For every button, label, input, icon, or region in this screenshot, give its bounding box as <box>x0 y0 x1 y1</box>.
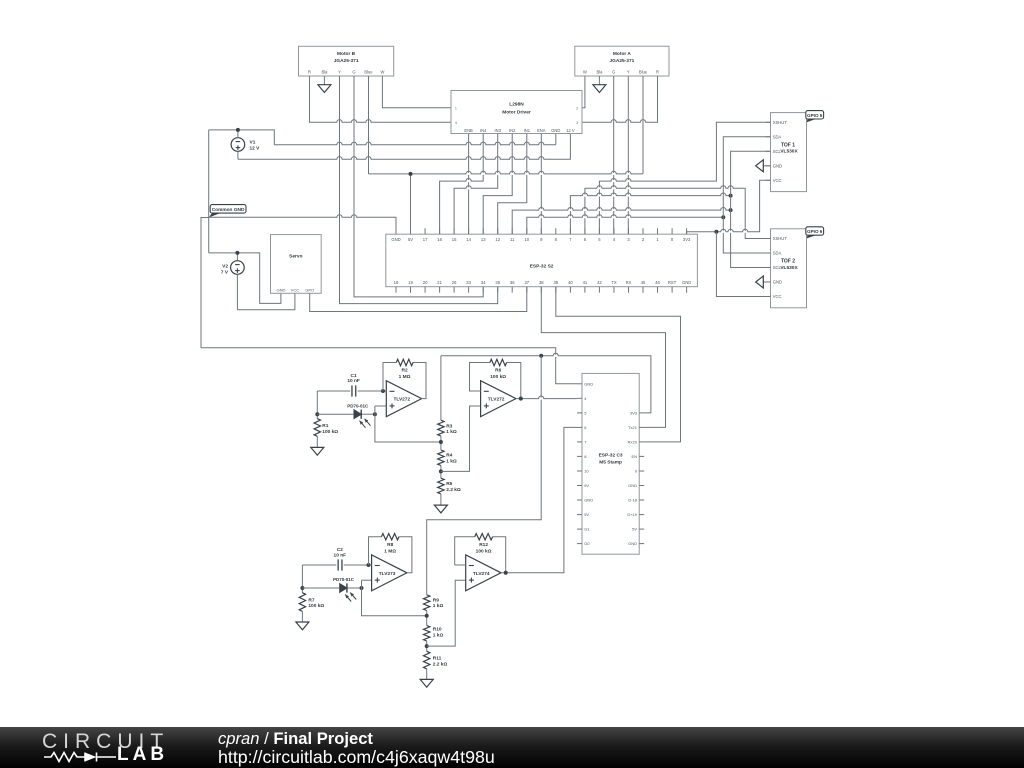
wire R3-R4 <box>440 436 442 450</box>
svg-text:V1: V1 <box>250 140 256 146</box>
label Motor A <box>609 51 634 64</box>
svg-text:Tx21: Tx21 <box>628 425 638 430</box>
svg-text:1 kΩ: 1 kΩ <box>446 458 457 464</box>
net flag GPIO 6 <box>806 227 824 239</box>
svg-text:15: 15 <box>452 237 457 242</box>
svg-text:EN: EN <box>631 454 637 459</box>
svg-text:ENB: ENB <box>464 128 473 133</box>
footer text <box>218 730 495 767</box>
wire R4-R5 <box>440 466 442 479</box>
wire ESP pin11 SDA rail <box>512 208 730 235</box>
svg-text:JGA25-371: JGA25-371 <box>609 58 634 64</box>
svg-text:SCL: SCL <box>773 265 782 270</box>
ground TOF 1 GND <box>756 160 771 172</box>
wire Motor A G to ESP pin4 <box>613 76 615 234</box>
wire C2 input line <box>302 564 368 566</box>
svg-text:TLV272: TLV272 <box>393 397 410 403</box>
svg-text:Blue: Blue <box>364 69 373 74</box>
label Servo <box>289 254 302 260</box>
svg-text:TOF 1: TOF 1 <box>781 142 795 148</box>
svg-text:R1: R1 <box>322 423 328 429</box>
pin stubs ESP-32 S2 top <box>396 228 687 234</box>
label V2 7V <box>221 263 229 275</box>
svg-text:100 kΩ: 100 kΩ <box>308 603 324 609</box>
svg-text:37: 37 <box>524 280 529 285</box>
photodiode PD70-01C #1 <box>354 410 371 428</box>
resistor R7 100k <box>299 593 305 612</box>
label R10 <box>433 627 444 639</box>
svg-text:10 nF: 10 nF <box>347 378 360 384</box>
wire ENB to ESP pin14 <box>468 134 470 235</box>
svg-text:10: 10 <box>524 237 529 242</box>
pin stubs C3 left <box>577 384 582 544</box>
svg-text:5V: 5V <box>584 483 589 488</box>
svg-text:33: 33 <box>466 280 471 285</box>
svg-text:VCC: VCC <box>291 287 300 292</box>
svg-text:G: G <box>612 69 615 74</box>
svg-text:PD70-01C: PD70-01C <box>333 577 355 582</box>
svg-text:100 kΩ: 100 kΩ <box>322 429 338 435</box>
junction sensor1 node <box>315 412 319 416</box>
pin stubs ESP-32 S2 bottom <box>396 287 687 293</box>
wire 12V rail V1+ to L298N 12V pin <box>238 134 571 161</box>
svg-text:GND: GND <box>628 483 637 488</box>
label ESP-32 C3 M5 Stamp <box>599 453 623 466</box>
pin numbers L298N sides <box>455 107 578 126</box>
box ESP-32 S2 <box>386 234 698 287</box>
junction pin7 rail / SCL vertical <box>729 194 733 198</box>
wire V2 top rail <box>209 253 281 304</box>
wire GND rail to L298N GND pin <box>274 134 556 146</box>
svg-text:18: 18 <box>394 280 399 285</box>
label V1 12V <box>250 140 261 152</box>
capacitor C1 10nF <box>352 385 356 396</box>
svg-text:16: 16 <box>437 237 442 242</box>
pin stubs TOF 2 <box>766 239 771 297</box>
svg-text:R11: R11 <box>433 655 442 661</box>
op-amp U3 TLV273 <box>372 555 407 591</box>
label Motor B <box>334 51 359 64</box>
svg-text:TLV274: TLV274 <box>473 571 490 577</box>
svg-text:IN1: IN1 <box>524 128 531 133</box>
box ESP-32 C3 M5 Stamp <box>582 373 639 554</box>
wire ESP pin39 to C3 Rx20 <box>556 287 681 442</box>
svg-text:ESP-32 C3: ESP-32 C3 <box>599 453 623 459</box>
svg-text:34: 34 <box>481 280 486 285</box>
wire ENA to ESP pin9 <box>540 134 542 235</box>
wire Motor A Y to ESP pin3 <box>627 76 629 234</box>
svg-text:R5: R5 <box>446 481 452 487</box>
wire ESP 5V pin to rail <box>410 174 412 234</box>
wire Motor A W to driver <box>582 76 585 108</box>
junction photodiode to plus input <box>373 412 377 416</box>
wire feedback op1 <box>383 363 426 399</box>
svg-text:GND: GND <box>682 280 691 285</box>
wire long common gnd line <box>201 348 577 384</box>
svg-text:45: 45 <box>641 280 646 285</box>
label R12 <box>476 542 492 554</box>
svg-text:R3: R3 <box>446 423 452 429</box>
svg-text:R10: R10 <box>433 627 442 633</box>
svg-text:RST: RST <box>668 280 677 285</box>
wire Motor B G to ESP pin34 <box>354 76 483 297</box>
pin labels Motor B <box>308 69 384 74</box>
op-amp U4 TLV274 <box>466 555 501 591</box>
pin labels ESP-32 S2 top <box>391 237 691 242</box>
svg-text:GPIO 6: GPIO 6 <box>807 229 823 234</box>
svg-text:38: 38 <box>539 280 544 285</box>
svg-text:GND: GND <box>628 541 637 546</box>
svg-text:2.2 kΩ: 2.2 kΩ <box>446 487 461 493</box>
svg-text:GND: GND <box>551 128 560 133</box>
wire sensor2 node <box>301 565 303 593</box>
label R11 <box>433 655 448 667</box>
wire minus input op1 <box>383 390 386 392</box>
svg-text:35: 35 <box>495 280 500 285</box>
wire V1 top to Common GND rail <box>209 130 275 145</box>
wire photodiode line 2 <box>302 587 361 589</box>
svg-text:100 kΩ: 100 kΩ <box>490 374 506 380</box>
svg-text:R6: R6 <box>495 368 501 374</box>
wire TOF SDA bus <box>723 137 770 253</box>
svg-text:IN2: IN2 <box>509 128 516 133</box>
resistor R2 1M <box>396 359 413 365</box>
svg-text:VL530X: VL530X <box>780 149 798 155</box>
svg-text:TOF 2: TOF 2 <box>781 259 795 265</box>
svg-text:C1: C1 <box>351 373 357 379</box>
svg-text:12 V: 12 V <box>250 145 261 151</box>
wire ESP pin7 rail <box>570 193 730 234</box>
svg-text:Motor A: Motor A <box>613 51 631 57</box>
svg-text:GND: GND <box>773 163 782 168</box>
box Motor A JGA25-371 <box>575 46 669 76</box>
junction V2 top <box>235 251 239 255</box>
net flag GPIO 5 <box>806 111 824 123</box>
junction sensor2 node <box>300 586 304 590</box>
resistor R9 1k <box>424 595 430 611</box>
op-amp U1 TLV272 <box>386 381 421 417</box>
svg-text:41: 41 <box>583 280 588 285</box>
svg-text:R: R <box>308 69 311 74</box>
resistor R10 1k <box>424 626 430 642</box>
svg-text:GND: GND <box>584 498 593 503</box>
ground R5 <box>434 494 447 513</box>
svg-text:12: 12 <box>495 237 500 242</box>
junction minus op1 <box>381 389 385 393</box>
svg-text:IN3: IN3 <box>495 128 502 133</box>
label L298N Motor Driver <box>502 102 531 116</box>
pin labels TOF 2 <box>773 236 788 299</box>
wire 3V3 to TOF2 VCC <box>716 232 770 297</box>
svg-text:ESP-32 S2: ESP-32 S2 <box>530 263 554 269</box>
CircuitLab logo <box>0 726 1024 728</box>
pin labels C3 right <box>627 411 637 547</box>
svg-text:12 V: 12 V <box>566 128 575 133</box>
svg-text:40: 40 <box>568 280 573 285</box>
svg-text:2: 2 <box>576 107 578 111</box>
svg-text:SDA: SDA <box>773 134 782 139</box>
wire common gnd vertical <box>208 130 210 253</box>
svg-text:4: 4 <box>455 121 457 125</box>
wire R9-R10 <box>426 611 428 626</box>
svg-text:GND: GND <box>773 280 782 285</box>
wire photodiode line 1 <box>317 413 375 415</box>
resistor R4 1k <box>438 450 444 466</box>
wire feedback op2 <box>470 363 521 399</box>
svg-text:GND: GND <box>391 237 400 242</box>
svg-text:26: 26 <box>452 280 457 285</box>
svg-text:D-18: D-18 <box>628 498 637 503</box>
pin labels ESP-32 S2 bottom <box>394 280 692 285</box>
label R8 <box>384 542 396 554</box>
wire ESP pin10 SCL rail <box>527 215 724 235</box>
junction tap2 <box>439 469 443 473</box>
net flag Common GND <box>209 205 246 218</box>
svg-text:5V: 5V <box>408 237 413 242</box>
label PD70-01C #2 <box>333 577 355 582</box>
wire TOF SCL bus <box>731 151 771 267</box>
wire 3V3 rail to TOF VCC <box>687 180 771 234</box>
wire IN3 to ESP pin15 <box>454 134 498 235</box>
svg-text:Motor B: Motor B <box>337 51 356 57</box>
ground R1 <box>311 436 324 455</box>
label R2 <box>399 368 411 380</box>
label R4 <box>446 452 457 464</box>
label TOF 2 <box>780 259 798 271</box>
svg-text:ENA: ENA <box>537 128 546 133</box>
wire IN4 to ESP pin16 <box>440 134 484 235</box>
svg-text:19: 19 <box>408 280 413 285</box>
wire Motor B R to driver <box>310 76 452 123</box>
junction SCL rail <box>721 215 725 219</box>
resistor R3 1k <box>438 420 444 436</box>
ground R7 <box>296 611 309 629</box>
wire minus input op4 <box>455 564 466 566</box>
svg-text:C2: C2 <box>337 547 343 553</box>
svg-text:10 nF: 10 nF <box>334 552 347 558</box>
wire ESP pin6 to TOF2 XSHUT (GPIO6) <box>585 186 771 239</box>
svg-text:3V3: 3V3 <box>630 411 638 416</box>
junction 3V3 branch <box>539 354 543 358</box>
svg-text:R2: R2 <box>402 368 408 374</box>
label R3 <box>446 423 457 435</box>
svg-text:21: 21 <box>437 280 442 285</box>
junction photodiode 2 plus <box>360 586 364 590</box>
svg-text:TLV273: TLV273 <box>379 571 396 577</box>
wire plus node to divider tap <box>375 414 441 442</box>
svg-text:VCC: VCC <box>773 294 782 299</box>
resistor R5 2.2k <box>438 478 444 494</box>
svg-text:R8: R8 <box>387 542 393 548</box>
junction 5V <box>409 172 413 176</box>
junction tap1 lower <box>425 614 429 618</box>
wire Motor B Y to ESP pin35 <box>340 76 498 304</box>
label TOF 1 <box>780 142 798 154</box>
svg-text:TX: TX <box>611 280 617 285</box>
svg-text:R7: R7 <box>308 598 314 604</box>
wire ESP pin5 to TOF1 XSHUT (GPIO5) <box>599 122 770 234</box>
svg-text:14: 14 <box>466 237 471 242</box>
wire 3V3 branch to lower divider <box>427 356 542 595</box>
svg-text:D+19: D+19 <box>627 512 637 517</box>
pin labels L298N bottom <box>464 128 574 133</box>
svg-text:IN4: IN4 <box>480 128 487 133</box>
junction tap2 lower <box>425 644 429 648</box>
label R5 <box>446 481 461 493</box>
svg-text:L298N: L298N <box>509 102 524 108</box>
svg-text:2.2 kΩ: 2.2 kΩ <box>433 661 448 667</box>
svg-text:W: W <box>380 69 384 74</box>
voltage source V2 7V <box>231 253 245 310</box>
wire ESP pin38 to C3 Tx21 <box>541 287 665 428</box>
svg-text:Blue: Blue <box>639 69 648 74</box>
wire Servo GPIO to ESP pin37 <box>310 287 527 312</box>
ground Motor A Bla <box>593 76 606 93</box>
svg-text:17: 17 <box>423 237 428 242</box>
wire op2 output to C3 pin4 <box>516 396 577 400</box>
wire Motor B W to driver <box>382 76 451 108</box>
wire common gnd branch left <box>201 218 209 348</box>
svg-text:1 MΩ: 1 MΩ <box>399 374 411 380</box>
svg-text:Y: Y <box>338 69 341 74</box>
wire feedback op4 <box>455 537 506 573</box>
svg-text:R9: R9 <box>433 598 439 604</box>
svg-text:R4: R4 <box>446 452 452 458</box>
junction SDA rail <box>729 208 733 212</box>
wire Motor A Blue to 5V rail <box>642 76 644 174</box>
svg-text:1 kΩ: 1 kΩ <box>433 632 444 638</box>
wire V2+ to servo VCC <box>237 293 295 310</box>
svg-text:1: 1 <box>455 107 457 111</box>
photodiode PD70-01C #2 <box>340 583 357 601</box>
pin labels Motor A <box>583 69 659 74</box>
svg-text:10: 10 <box>584 469 589 474</box>
wire minus input op3 <box>369 564 372 566</box>
svg-text:Bla: Bla <box>596 69 603 74</box>
label PD70-01C #1 <box>347 404 369 409</box>
box Servo <box>271 235 322 294</box>
svg-text:7 V: 7 V <box>221 269 229 275</box>
svg-text:G0: G0 <box>584 541 590 546</box>
wire 5V rail <box>369 171 644 175</box>
svg-text:M5 Stamp: M5 Stamp <box>599 460 622 466</box>
label ESP-32 S2 <box>530 263 554 269</box>
label C1 <box>347 373 360 384</box>
pin stubs TOF 1 <box>766 122 771 180</box>
svg-text:PD70-01C: PD70-01C <box>347 404 369 409</box>
box L298N Motor Driver <box>451 91 582 134</box>
resistor R12 100k <box>475 534 493 540</box>
svg-text:20: 20 <box>423 280 428 285</box>
svg-text:JGA25-371: JGA25-371 <box>334 58 359 64</box>
wire plus input op3 <box>362 580 372 588</box>
svg-text:V2: V2 <box>222 263 228 269</box>
svg-text:46: 46 <box>655 280 660 285</box>
svg-text:Servo: Servo <box>289 254 302 260</box>
resistor R1 100k <box>314 419 320 437</box>
svg-text:VCC: VCC <box>773 178 782 183</box>
junction op4 output <box>504 571 508 575</box>
wire plus input op1 <box>375 406 386 414</box>
svg-text:36: 36 <box>510 280 515 285</box>
wire plus node 2 to divider tap <box>362 588 427 616</box>
label R9 <box>433 598 444 610</box>
svg-text:R: R <box>656 69 659 74</box>
label R1 <box>322 423 338 435</box>
wire 3V3 to R3 <box>440 356 442 420</box>
label C2 <box>334 547 347 558</box>
ground TOF 2 GND <box>756 276 771 288</box>
svg-text:TLV272: TLV272 <box>488 397 505 403</box>
resistor R6 100k <box>490 359 507 365</box>
wire IN2 to ESP pin13 <box>483 134 512 235</box>
pin stubs C3 right <box>639 413 644 544</box>
svg-text:Motor Driver: Motor Driver <box>502 109 531 115</box>
box TOF 2 VL530X <box>771 229 807 308</box>
pin labels Servo <box>276 287 314 292</box>
svg-text:5V: 5V <box>584 512 589 517</box>
junction 3V3 rail VCC2 branch <box>714 230 718 234</box>
resistor R8 1M <box>381 534 399 540</box>
svg-text:100 kΩ: 100 kΩ <box>476 548 492 554</box>
svg-text:5V: 5V <box>632 527 637 532</box>
svg-text:GPO: GPO <box>305 287 314 292</box>
svg-text:G: G <box>352 69 355 74</box>
svg-text:3: 3 <box>576 121 578 125</box>
svg-text:GND: GND <box>584 381 593 386</box>
svg-text:XSHUT: XSHUT <box>773 120 788 125</box>
svg-text:Common GND: Common GND <box>212 207 245 213</box>
svg-text:W: W <box>583 69 587 74</box>
wire feedback op3 <box>369 537 412 573</box>
svg-text:GND: GND <box>276 287 285 292</box>
voltage source V1 12V <box>231 130 245 159</box>
wire R10-R11 <box>426 641 428 651</box>
pin labels C3 left <box>584 381 593 546</box>
label R6 <box>490 368 506 380</box>
wire C1 input line <box>317 390 383 392</box>
svg-text:R12: R12 <box>479 542 488 548</box>
wire IN1 to ESP pin12 <box>498 134 527 235</box>
svg-text:Rx20: Rx20 <box>628 440 638 445</box>
junction V1 top <box>236 128 240 132</box>
svg-text:SDA: SDA <box>773 251 782 256</box>
svg-text:RX: RX <box>626 280 632 285</box>
svg-text:Y: Y <box>627 69 630 74</box>
svg-text:SCL: SCL <box>773 149 782 154</box>
box TOF 1 VL530X <box>771 113 807 192</box>
label R7 <box>308 598 324 610</box>
svg-text:3V3: 3V3 <box>683 237 691 242</box>
capacitor C2 10nF <box>338 559 342 570</box>
wire 3V3 line to C3 3V3 <box>441 353 651 413</box>
wire common gnd to ESP GND pin <box>209 215 396 235</box>
svg-text:GPIO 5: GPIO 5 <box>807 113 823 118</box>
svg-text:39: 39 <box>553 280 558 285</box>
wire op4 output to C3 pin6 <box>501 427 577 572</box>
svg-text:42: 42 <box>597 280 602 285</box>
svg-text:VL530X: VL530X <box>780 265 798 271</box>
junction minus op3 <box>367 563 371 567</box>
pin labels TOF 1 <box>773 120 788 183</box>
ground R11 <box>420 669 433 687</box>
svg-text:XSHUT: XSHUT <box>773 236 788 241</box>
svg-text:1 MΩ: 1 MΩ <box>384 548 396 554</box>
wire tap2 to op2 plus <box>441 406 481 471</box>
junction op2 output <box>519 397 523 401</box>
svg-text:1 kΩ: 1 kΩ <box>446 429 457 435</box>
svg-text:Bla: Bla <box>321 69 328 74</box>
